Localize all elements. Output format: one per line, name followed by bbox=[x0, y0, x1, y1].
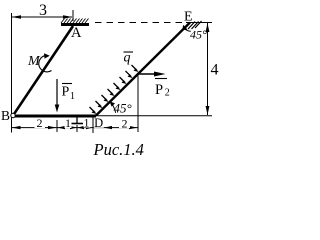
svg-text:q: q bbox=[124, 51, 131, 66]
force P1 overline bbox=[62, 83, 72, 85]
svg-text:3: 3 bbox=[39, 2, 47, 19]
dimension 1 second label bbox=[84, 119, 91, 128]
hinge circle B bbox=[11, 113, 15, 117]
angle 45 arc at E bbox=[184, 28, 191, 31]
dimension 3 left arrow bbox=[12, 15, 22, 19]
extension line at load end bbox=[137, 74, 139, 133]
bottom dimension ticks bbox=[56, 120, 58, 132]
svg-text:45°: 45° bbox=[190, 28, 207, 42]
moment M arc bbox=[39, 56, 52, 72]
svg-text:1: 1 bbox=[70, 91, 75, 102]
moment M arrowhead bbox=[44, 53, 50, 58]
svg-text:1: 1 bbox=[65, 118, 71, 130]
dimension 4 line bbox=[207, 23, 209, 115]
left reference extension line bbox=[11, 13, 13, 133]
load q overline bbox=[124, 51, 134, 53]
svg-text:D: D bbox=[94, 116, 103, 130]
beam BD bbox=[13, 115, 96, 118]
dimension 2 left label bbox=[35, 119, 46, 129]
rod DE bbox=[96, 23, 190, 116]
dimension 1 label bbox=[65, 119, 72, 128]
svg-text:E: E bbox=[184, 10, 193, 25]
bottom dimension arrows bbox=[12, 126, 21, 129]
force P2 arrow bbox=[138, 73, 158, 75]
force P2 overline bbox=[155, 78, 167, 80]
dimension 3 line bbox=[12, 16, 72, 18]
svg-text:45°: 45° bbox=[114, 101, 132, 116]
svg-text:4: 4 bbox=[211, 62, 219, 79]
support hatching at E bbox=[188, 21, 202, 29]
svg-text:B: B bbox=[1, 108, 10, 123]
svg-text:P: P bbox=[62, 85, 70, 100]
small support under beam bbox=[76, 117, 78, 123]
force P1 arrow bbox=[56, 79, 58, 106]
dimension 3 right arrow bbox=[63, 15, 73, 19]
solid line right of E bbox=[186, 22, 212, 24]
svg-text:P: P bbox=[155, 82, 163, 98]
dashed line A to E bbox=[95, 22, 183, 24]
distributed load q arrows bbox=[90, 65, 138, 113]
angle 45 arc at D bbox=[110, 102, 115, 113]
svg-text:1: 1 bbox=[84, 118, 90, 130]
bottom dimension line bbox=[12, 127, 139, 129]
support A bar bbox=[61, 23, 89, 26]
dimension 2 right label bbox=[119, 119, 130, 129]
support A hatching bbox=[61, 19, 89, 24]
svg-text:2: 2 bbox=[165, 88, 170, 99]
svg-text:M: M bbox=[27, 54, 41, 69]
horizontal reference line from D to right bbox=[96, 115, 212, 117]
node D label bbox=[94, 118, 104, 128]
svg-text:2: 2 bbox=[37, 116, 43, 130]
svg-text:Рис.1.4: Рис.1.4 bbox=[93, 140, 144, 159]
tick above support A bbox=[72, 10, 74, 21]
svg-text:2: 2 bbox=[122, 117, 128, 131]
beam AB bbox=[14, 26, 74, 115]
